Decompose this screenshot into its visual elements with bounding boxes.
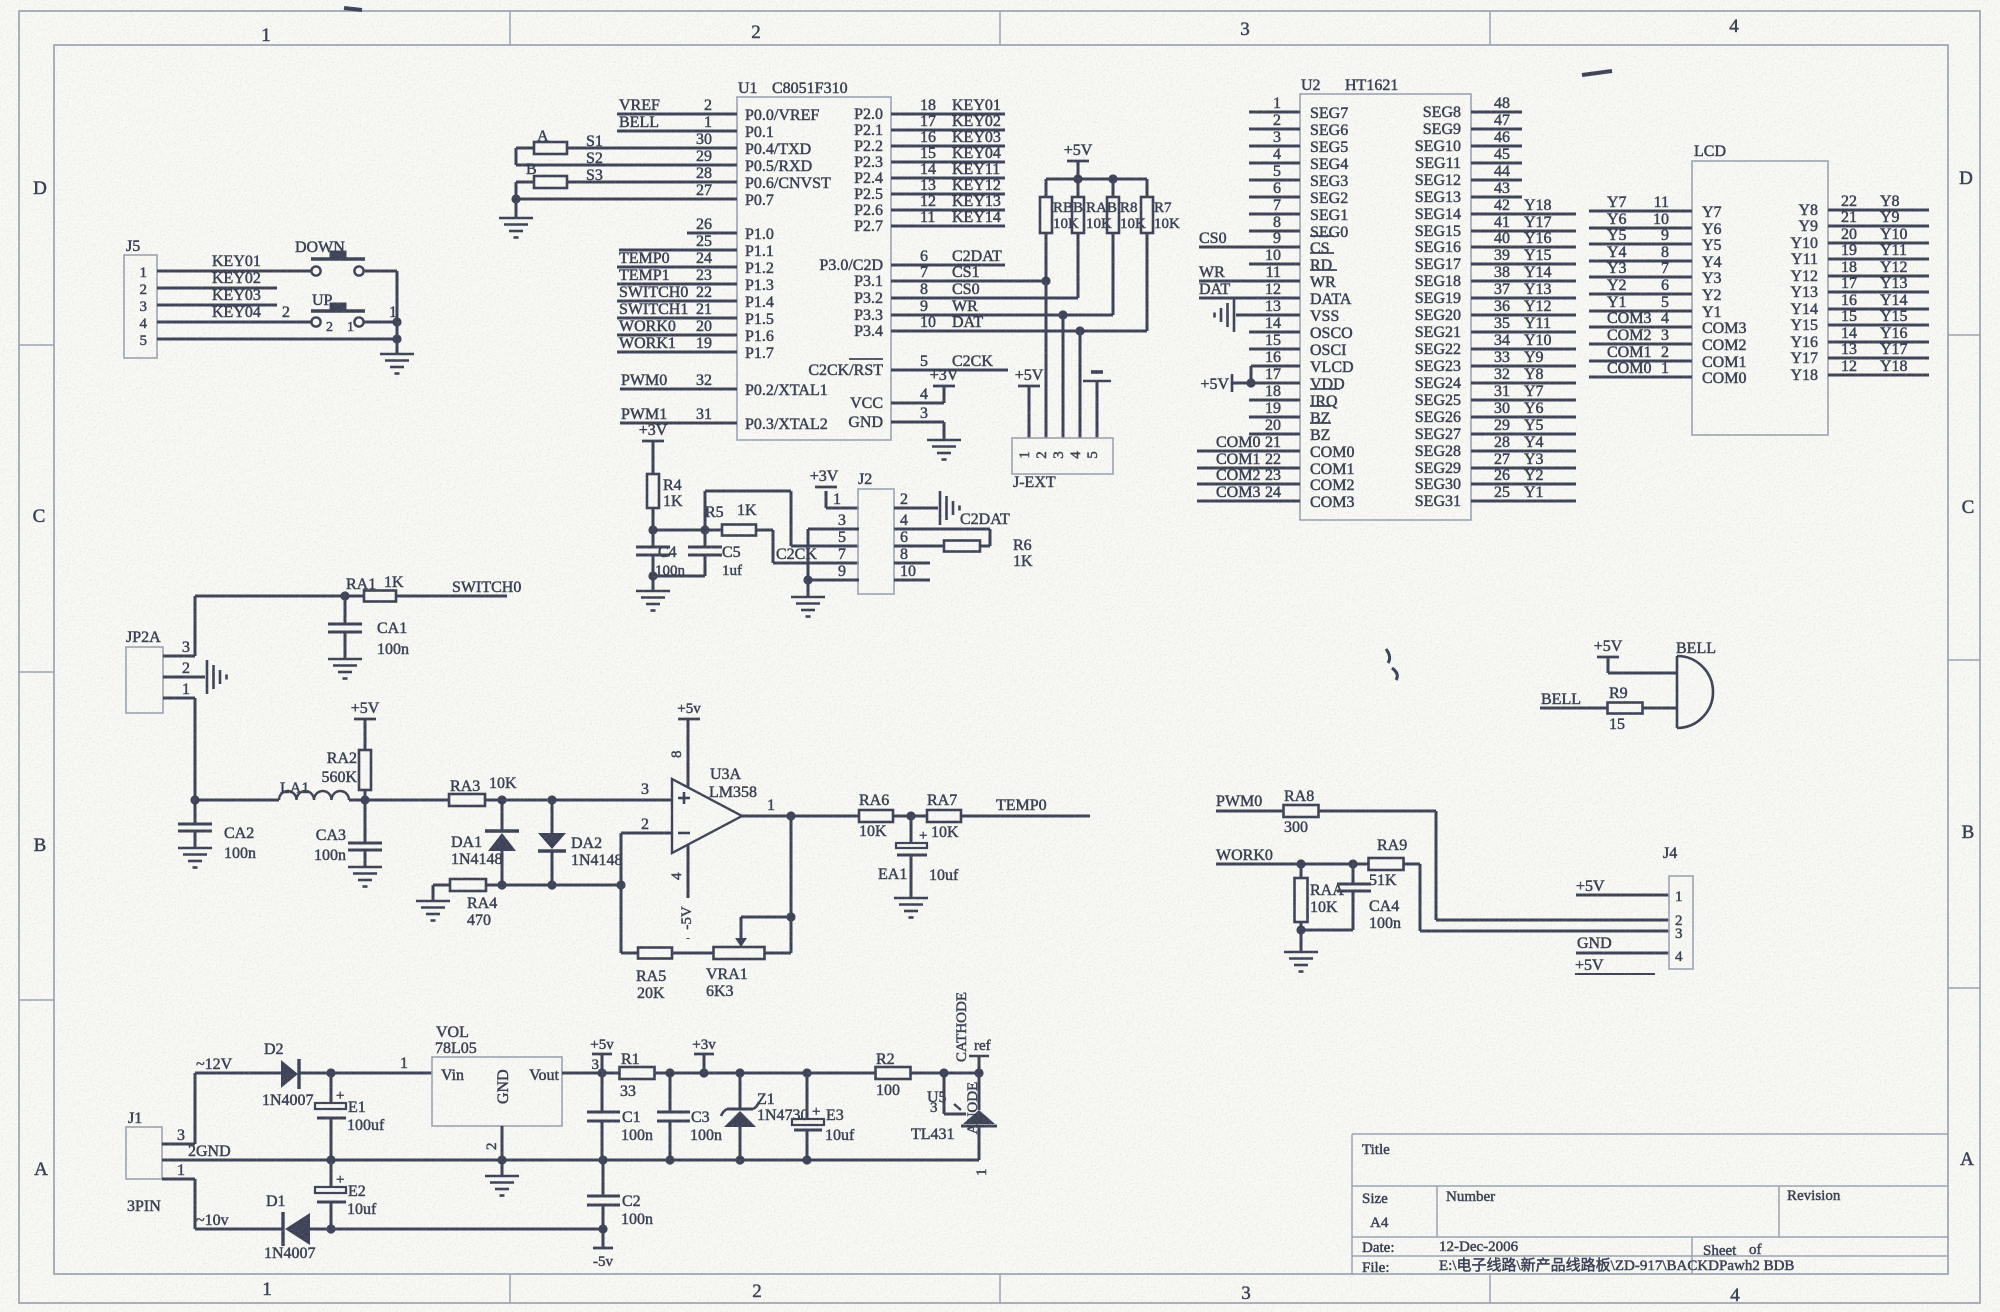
wire net Y5 U2 pin 29 bbox=[1471, 417, 1576, 434]
wire U2 pin 20 bbox=[1249, 417, 1300, 434]
wire U2 pin 15 bbox=[1249, 332, 1300, 349]
wire U2 pin 4 bbox=[1249, 146, 1300, 163]
wire net KEY02 pin 17 bbox=[891, 113, 1005, 130]
wire net PWM0 bbox=[1216, 793, 1284, 811]
wire RAB to CS0 bbox=[1077, 233, 1080, 298]
wire U2 pin 3 bbox=[1249, 129, 1300, 146]
battery cell J-EXT pin5 bbox=[1083, 372, 1111, 438]
wire net PWM1 pin 31 bbox=[620, 406, 737, 423]
wire net Y8 U2 pin 32 bbox=[1471, 366, 1576, 383]
wire net SWITCH0 pin 22 bbox=[617, 284, 737, 301]
op U1 right pin names bbox=[808, 106, 883, 431]
connector J1 bbox=[126, 1110, 162, 1215]
zone labels left bbox=[33, 178, 48, 1180]
wire net KEY12 pin 13 bbox=[891, 177, 1005, 194]
wire net COM2 LCD pin 3 bbox=[1589, 327, 1692, 344]
wire P1.0 pin 26 bbox=[687, 216, 737, 233]
resistor RA1 1K bbox=[346, 574, 404, 602]
ground CA3 bbox=[348, 867, 382, 887]
node A label bbox=[537, 128, 549, 145]
wire net CS1 pin 7 bbox=[891, 264, 1051, 286]
wire P1.1 pin 25 bbox=[619, 233, 737, 250]
wire U2 pin 46 bbox=[1471, 129, 1522, 146]
resistor RAA 10K bbox=[1295, 864, 1345, 930]
wire net Y3 U2 pin 27 bbox=[1471, 451, 1576, 468]
pushbutton UP bbox=[311, 292, 365, 335]
capacitor C5 1uf bbox=[688, 530, 742, 579]
wire net BELL pin 1 bbox=[617, 114, 737, 131]
wire net COM2 U2 pin 23 bbox=[1197, 467, 1300, 484]
op U2 left pin names bbox=[1310, 105, 1354, 511]
ground CA2 bbox=[178, 848, 212, 868]
wire net Y15 LCD pin 15 bbox=[1828, 308, 1929, 325]
wire R7 to DAT bbox=[1146, 233, 1149, 331]
op U1 C8051F310 box bbox=[737, 80, 891, 440]
wire U2 pin 2 bbox=[1249, 112, 1300, 129]
connector JP2A bbox=[126, 629, 190, 713]
wire net Y1 U2 pin 25 bbox=[1471, 484, 1576, 501]
wire J1 pin1 ~10v bbox=[162, 1162, 283, 1229]
power +5V resistor network bbox=[1064, 142, 1093, 179]
wire U2 pin 5 bbox=[1249, 163, 1300, 180]
wire U2 pin 14 bbox=[1249, 315, 1300, 332]
wire U2 pin 43 bbox=[1471, 180, 1522, 197]
scan artifact marks bbox=[344, 8, 1612, 680]
title block grid bbox=[1352, 1134, 1948, 1274]
wire net CS0 U2 pin 9 bbox=[1199, 230, 1300, 247]
resistor R5 1K bbox=[705, 502, 773, 536]
wire J2 pin10 bbox=[894, 579, 930, 582]
wire net WR U2 pin 11 bbox=[1199, 264, 1300, 281]
op U5 TL431 bbox=[911, 992, 997, 1176]
wire net COM3 U2 pin 24 bbox=[1197, 484, 1300, 501]
wire net Y18 U2 pin 42 bbox=[1471, 197, 1576, 214]
wire U2 pin 44 bbox=[1471, 163, 1522, 180]
wire net Y10 LCD pin 20 bbox=[1828, 226, 1929, 243]
wire net Y2 LCD pin 6 bbox=[1589, 277, 1692, 294]
ground EA1 bbox=[894, 898, 928, 918]
wire net Y1 LCD pin 5 bbox=[1589, 294, 1692, 311]
wire JP2A pin3 to SWITCH0 bbox=[163, 591, 365, 656]
resistor R1 33 bbox=[620, 1051, 877, 1100]
wire U2 pin 7 bbox=[1249, 197, 1300, 214]
zener Z1 1N4730 bbox=[721, 1073, 809, 1160]
capacitor E3 10uf bbox=[792, 1073, 855, 1160]
wire net WORK0 bbox=[1216, 847, 1369, 869]
wire C4 C5 bottom bbox=[648, 571, 705, 580]
ground U1 GND pin 3 bbox=[891, 405, 961, 460]
wire net BELL bbox=[1540, 691, 1608, 708]
wire J1 pin2 GND row bbox=[162, 1143, 979, 1165]
wire net KEY14 pin 11 bbox=[891, 209, 1005, 226]
wire op-amp output pin1 bbox=[742, 797, 859, 821]
wire net Y7 LCD pin 11 bbox=[1589, 194, 1692, 211]
node main row left bbox=[190, 795, 279, 804]
buzzer BELL bbox=[1676, 640, 1716, 728]
wire U2 VLCD pin 16 bbox=[1251, 349, 1300, 383]
capacitor C2 100n bbox=[587, 1160, 653, 1234]
wire net Y17 LCD pin 13 bbox=[1828, 341, 1929, 358]
connector J-EXT bbox=[1012, 438, 1113, 491]
wire net Y8 LCD pin 22 bbox=[1828, 193, 1929, 210]
resistor R8 10K bbox=[1107, 197, 1146, 233]
capacitor CA1 100n bbox=[328, 596, 409, 659]
wire RA8 to J4 pin2 bbox=[1436, 811, 1669, 920]
wire net KEY13 pin 12 bbox=[891, 193, 1005, 210]
capacitor CA4 100n bbox=[1337, 864, 1401, 932]
power +3V at J2 pin1 bbox=[810, 468, 859, 508]
wire net PWM0 pin 32 bbox=[620, 372, 737, 389]
wire KEY04 bbox=[157, 304, 311, 322]
wire feedback bbox=[735, 816, 796, 953]
wire U2 pin 47 bbox=[1471, 112, 1522, 129]
wire net Y14 LCD pin 16 bbox=[1828, 292, 1929, 309]
capacitor C1 100n bbox=[587, 1073, 653, 1160]
wire net Y13 LCD pin 17 bbox=[1828, 275, 1929, 292]
wire net Y13 U2 pin 37 bbox=[1471, 281, 1576, 298]
wire net COM0 U2 pin 21 bbox=[1197, 434, 1300, 451]
wire +5V J4 pin1 bbox=[1576, 878, 1669, 895]
power +5V bell bbox=[1594, 638, 1677, 673]
wire J1 pin3 ~12V bbox=[162, 1056, 281, 1144]
connector J4 bbox=[1663, 845, 1693, 969]
connector J2 bbox=[833, 471, 916, 594]
wire U2 pin 19 bbox=[1249, 400, 1300, 417]
power +3V at U1 VCC pin 4 bbox=[891, 367, 959, 403]
wire J-EXT pin4 bbox=[1079, 331, 1082, 438]
wire net Y12 U2 pin 36 bbox=[1471, 298, 1576, 315]
wire J2 pin4 C2DAT bbox=[894, 511, 1010, 529]
wire J2 pin2 ground bbox=[894, 491, 960, 525]
wire net Y16 LCD pin 14 bbox=[1828, 325, 1929, 342]
wire U2 pin 48 bbox=[1471, 95, 1522, 112]
resistor R2 100 bbox=[876, 1051, 984, 1099]
wire U2 pin 6 bbox=[1249, 180, 1300, 197]
zone labels bottom bbox=[262, 1279, 1740, 1306]
power +3v node bbox=[692, 1037, 716, 1073]
wire S2 pin 29 bbox=[516, 148, 737, 167]
wire net Y17 U2 pin 41 bbox=[1471, 214, 1576, 231]
wire op-amp pin2 input bbox=[621, 816, 672, 953]
wire net CS0 pin 8 bbox=[891, 281, 1078, 298]
resistor S3 bbox=[516, 165, 737, 199]
wire net KEY03 pin 16 bbox=[891, 129, 1005, 146]
wire net KEY04 pin 15 bbox=[891, 145, 1005, 162]
resistor R9 15 bbox=[1608, 685, 1678, 733]
resistor S1 bbox=[516, 131, 737, 165]
op LCD left pin names bbox=[1702, 204, 1746, 387]
wire KEY02 bbox=[157, 270, 277, 288]
ground J5 bbox=[380, 339, 414, 374]
diode DA2 1N4148 bbox=[538, 800, 623, 885]
ground J2 bbox=[791, 580, 825, 617]
ground C4 bbox=[636, 576, 670, 611]
resistor RA8 300 bbox=[1284, 788, 1437, 836]
wire net Y14 U2 pin 38 bbox=[1471, 264, 1576, 281]
wire R8 to WR bbox=[1112, 233, 1115, 315]
wire +5V rail bbox=[1046, 174, 1147, 198]
resistor RA3 10K bbox=[449, 775, 672, 806]
title block text bbox=[1362, 1142, 1841, 1276]
ground RAA bbox=[1284, 930, 1318, 972]
wire net Y12 LCD pin 18 bbox=[1828, 259, 1929, 276]
wire net WR pin 9 bbox=[891, 298, 1113, 320]
op-amp U3A LM358 bbox=[672, 766, 757, 853]
resistor RA9 51K bbox=[1369, 837, 1421, 889]
resistor RA5 20K bbox=[621, 948, 714, 1003]
zone labels right bbox=[1959, 168, 1974, 1170]
resistor RBB 10K bbox=[1040, 197, 1083, 233]
wire J2 pin3 pin9 ground bbox=[803, 529, 859, 585]
wire J-EXT pin3 bbox=[1062, 315, 1065, 438]
capacitor C4 100n bbox=[636, 530, 686, 579]
op LCD right pin names bbox=[1790, 202, 1818, 384]
power +5v rail node bbox=[590, 1037, 614, 1078]
wire GND J4 pin4 bbox=[1575, 935, 1669, 974]
wire net KEY01 pin 18 bbox=[891, 97, 1005, 114]
op LCD box bbox=[1692, 143, 1828, 435]
wire net WORK0 pin 20 bbox=[617, 318, 737, 335]
wire RA9 to J4 pin3 bbox=[1420, 864, 1669, 931]
wire U2 pin 10 bbox=[1249, 247, 1300, 264]
wire KEY03 bbox=[157, 287, 277, 305]
wire RAA CA4 bottom bbox=[1296, 925, 1353, 934]
wire net C2DAT pin 6 bbox=[891, 248, 1005, 265]
node B label bbox=[526, 161, 537, 178]
power -5v bbox=[593, 1229, 613, 1270]
power +5v op-amp pin8 bbox=[669, 701, 701, 787]
wire RBB to CS1 bbox=[1045, 233, 1048, 281]
wire KEY01 bbox=[157, 253, 311, 271]
node R4 bottom bbox=[648, 525, 709, 534]
pushbutton DOWN bbox=[295, 239, 365, 276]
resistor RA6 10K bbox=[859, 792, 927, 840]
capacitor EA1 10uf bbox=[878, 816, 959, 898]
wire net COM0 LCD pin 1 bbox=[1589, 360, 1692, 377]
wire net Y16 U2 pin 40 bbox=[1471, 230, 1576, 247]
wire net KEY11 pin 14 bbox=[891, 161, 1005, 178]
wire net TEMP0 pin 24 bbox=[617, 250, 737, 267]
wire net Y5 LCD pin 9 bbox=[1589, 227, 1692, 244]
wire net Y15 U2 pin 39 bbox=[1471, 247, 1576, 264]
diode D1 1N4007 bbox=[264, 1193, 603, 1262]
capacitor C3 100n bbox=[657, 1073, 722, 1160]
wire net COM1 U2 pin 22 bbox=[1197, 451, 1300, 468]
wire U2 pin 1 bbox=[1249, 95, 1300, 112]
resistor R7 10K bbox=[1141, 197, 1180, 233]
wire net Y7 U2 pin 31 bbox=[1471, 383, 1576, 400]
resistor R6 1K bbox=[894, 529, 1033, 570]
wire P0.7 pin 27 bbox=[511, 182, 737, 204]
wire net VREF pin 2 bbox=[617, 97, 737, 114]
ground S3 bbox=[499, 199, 533, 238]
power +5V at RA2 bbox=[351, 700, 380, 750]
wire net C2CK pin 5 bbox=[891, 353, 1008, 370]
wire net Y11 LCD pin 19 bbox=[1828, 242, 1929, 259]
wire JP2A pin1 down bbox=[163, 698, 195, 800]
inductor LA1 bbox=[279, 780, 449, 805]
wire R5 to J2 pin7 C2CK bbox=[773, 530, 859, 563]
wire net COM3 LCD pin 4 bbox=[1589, 310, 1692, 327]
wire net Y11 U2 pin 35 bbox=[1471, 315, 1576, 332]
capacitor E2 10uf bbox=[315, 1160, 377, 1229]
wire net COM1 LCD pin 2 bbox=[1589, 344, 1692, 361]
wire net Y18 LCD pin 12 bbox=[1828, 358, 1929, 375]
wire net TEMP0 bbox=[996, 797, 1047, 814]
wire net Y4 LCD pin 8 bbox=[1589, 244, 1692, 261]
wire net Y10 U2 pin 34 bbox=[1471, 332, 1576, 349]
wire J2 pin8 bbox=[894, 562, 930, 565]
capacitor CA3 100n bbox=[314, 800, 382, 867]
power +3V at R4 bbox=[639, 422, 668, 474]
wire net Y4 U2 pin 28 bbox=[1471, 434, 1576, 451]
capacitor CA2 100n bbox=[178, 800, 256, 862]
wire net SWITCH0 bbox=[396, 579, 521, 596]
wire UP to junction bbox=[364, 304, 402, 327]
op U2 right pin names bbox=[1415, 104, 1461, 510]
capacitor E1 100uf bbox=[315, 1073, 385, 1160]
diode D2 1N4007 bbox=[262, 1041, 432, 1109]
resistor RA2 560K bbox=[321, 750, 371, 800]
wire op-amp pin4 -5V bbox=[669, 845, 696, 939]
op U2 HT1621 box bbox=[1300, 77, 1471, 520]
wire net TEMP1 pin 23 bbox=[617, 267, 737, 284]
wire DOWN to junction bbox=[364, 271, 397, 340]
wire op-amp pin3 input bbox=[641, 781, 649, 798]
op U1 left pin names bbox=[745, 107, 831, 433]
ground U2 VSS pin 13 bbox=[1215, 298, 1301, 332]
resistor RA4 470 bbox=[433, 879, 626, 929]
ground CA1 bbox=[328, 659, 362, 679]
resistor R4 1K bbox=[647, 474, 683, 530]
paper texture bbox=[0, 0, 1, 1]
resistor RAB 10K bbox=[1072, 197, 1117, 233]
wire net Y6 LCD pin 10 bbox=[1589, 211, 1692, 228]
ground JP2A pin2 bbox=[163, 660, 227, 694]
zone labels top bbox=[261, 16, 1739, 46]
power +5V J-EXT pin1 bbox=[1015, 367, 1044, 438]
wire net WORK1 pin 19 bbox=[617, 335, 737, 352]
ground 78L05 pin2 bbox=[484, 1126, 519, 1196]
ground RA4 bbox=[416, 885, 450, 921]
wire net Y2 U2 pin 26 bbox=[1471, 467, 1576, 484]
diode DA1 1N4148 bbox=[451, 800, 519, 885]
wire net Y3 LCD pin 7 bbox=[1589, 260, 1692, 277]
wire J-EXT pin2 bbox=[1045, 281, 1048, 438]
wire net DAT pin 10 bbox=[891, 314, 1147, 336]
wire U2 pin 18 bbox=[1249, 383, 1300, 400]
resistor RA7 10K bbox=[927, 792, 1090, 841]
wire J5 pin5 bbox=[157, 334, 402, 343]
connector J5 bbox=[124, 238, 157, 358]
wire net Y6 U2 pin 30 bbox=[1471, 400, 1576, 417]
wire U2 pin 45 bbox=[1471, 146, 1522, 163]
op VOL 78L05 bbox=[432, 1024, 620, 1126]
potentiometer VRA1 6K3 bbox=[706, 947, 791, 1000]
power +5V U2 VDD pin 17 bbox=[1200, 366, 1300, 393]
wire net Y9 U2 pin 33 bbox=[1471, 349, 1576, 366]
wire net DAT U2 pin 12 bbox=[1199, 281, 1300, 298]
wire net Y9 LCD pin 21 bbox=[1828, 209, 1929, 226]
wire U2 pin 8 bbox=[1249, 214, 1300, 231]
wire J2 pin5 loop bbox=[705, 491, 859, 546]
wire net SWITCH1 pin 21 bbox=[617, 301, 737, 318]
